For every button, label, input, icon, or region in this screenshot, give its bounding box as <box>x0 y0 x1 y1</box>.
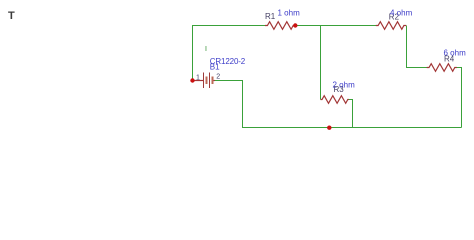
svg-text:B1: B1 <box>210 63 220 72</box>
svg-text:R1: R1 <box>265 12 276 21</box>
svg-text:T: T <box>8 10 15 22</box>
svg-text:1 ohm: 1 ohm <box>278 9 301 18</box>
svg-text:2: 2 <box>216 74 220 81</box>
svg-text:6 ohm: 6 ohm <box>444 49 467 58</box>
svg-text:1: 1 <box>196 74 200 81</box>
svg-text:I: I <box>205 46 207 53</box>
svg-text:4 ohm: 4 ohm <box>390 8 413 17</box>
svg-text:2 ohm: 2 ohm <box>333 81 356 90</box>
